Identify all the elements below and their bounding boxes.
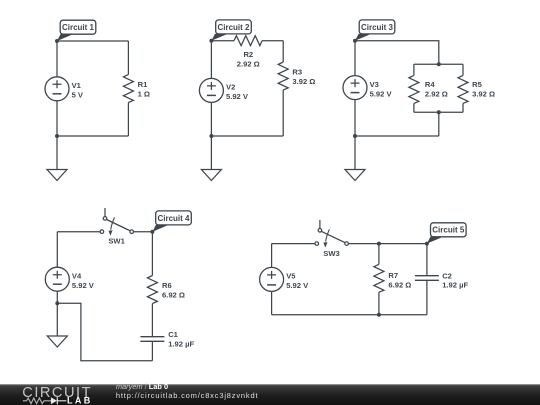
node circuit1 top: [55, 39, 59, 43]
wire circuit2 right upper: [282, 41, 284, 62]
svg-text:R7: R7: [388, 271, 398, 280]
junction R7 top: [377, 242, 381, 246]
junction circuit4 left: [55, 301, 59, 305]
svg-text:V2: V2: [226, 83, 235, 92]
wire circuit4 bottom: [57, 303, 152, 360]
label pointer Circuit 5: [427, 237, 444, 244]
wire circuit2 top left: [211, 40, 234, 42]
svg-text:V5: V5: [286, 272, 296, 281]
wire circuit1 bottom: [57, 135, 128, 137]
logo squiggle wire: [23, 398, 51, 404]
ground circuit3: [345, 136, 365, 181]
svg-text:Circuit 2: Circuit 2: [217, 23, 250, 32]
svg-text:R5: R5: [472, 80, 482, 89]
wire circuit3 left upper: [354, 41, 356, 76]
svg-text:3.92 Ω: 3.92 Ω: [472, 89, 495, 98]
junction circuit3 bus bottom: [437, 110, 441, 114]
svg-text:1.92 µF: 1.92 µF: [442, 281, 468, 290]
label pointer Circuit 2: [211, 34, 228, 41]
label box Circuit 1: [60, 20, 96, 34]
wire switch to circuit5 node: [348, 243, 427, 245]
wire circuit3 bottom: [355, 135, 439, 137]
wire circuit5 bottom: [272, 314, 427, 316]
svg-text:1 Ω: 1 Ω: [138, 89, 150, 98]
wire circuit1 left lower: [56, 101, 58, 136]
logo diode bar and wire: [57, 397, 66, 404]
svg-text:Circuit 4: Circuit 4: [157, 214, 190, 223]
svg-text:LAB: LAB: [67, 395, 93, 405]
wire switch to node circuit4: [134, 231, 153, 233]
wire R7 lower: [378, 292, 380, 314]
node circuit5: [425, 242, 429, 246]
wire circuit4 left top: [56, 232, 58, 268]
svg-text:V3: V3: [370, 80, 379, 89]
label box Circuit 3: [359, 20, 395, 34]
wire circuit2 top right: [262, 40, 283, 42]
svg-text:2.92 Ω: 2.92 Ω: [237, 59, 260, 68]
svg-text:5.92 V: 5.92 V: [370, 89, 393, 98]
voltage source V1: [45, 77, 69, 101]
svg-text:SW3: SW3: [323, 249, 339, 258]
wire circuit4 left bottom: [56, 291, 58, 303]
svg-text:V1: V1: [72, 81, 82, 90]
wire circuit1 right lower: [127, 103, 129, 137]
label box Circuit 5: [431, 223, 467, 237]
svg-text:C1: C1: [168, 330, 178, 339]
svg-text:C2: C2: [442, 271, 452, 280]
svg-text:V4: V4: [72, 271, 82, 280]
label pointer Circuit 4: [152, 225, 169, 232]
svg-text:5.92 V: 5.92 V: [72, 281, 95, 290]
resistor R6: [147, 276, 157, 304]
switch SW1: [100, 208, 133, 236]
node circuit3 top: [353, 39, 357, 43]
label pointer Circuit 1: [57, 34, 74, 41]
footer bar: [0, 384, 540, 405]
junction circuit1 bottom: [55, 134, 59, 138]
svg-text:R1: R1: [138, 80, 148, 89]
wire circuit3 top: [355, 41, 439, 65]
wire C1 down: [151, 341, 153, 360]
svg-text:6.92 Ω: 6.92 Ω: [162, 291, 185, 300]
wire circuit1 right upper: [127, 41, 129, 75]
svg-text:5 V: 5 V: [72, 91, 84, 100]
capacitor C1: [140, 337, 164, 342]
wire circuit3 left lower: [354, 100, 356, 136]
voltage source V3: [343, 76, 367, 100]
resistor R7: [374, 264, 384, 292]
ground circuit4: [47, 303, 67, 347]
wire circuit2 left lower: [210, 102, 212, 136]
wire circuit5 top to switch: [272, 243, 315, 245]
ground circuit1: [47, 136, 67, 181]
svg-text:Circuit 1: Circuit 1: [62, 23, 95, 32]
wire circuit3 bus bottom: [414, 111, 463, 113]
wire circuit5 left bottom: [271, 291, 273, 314]
wire R7 upper: [378, 244, 380, 265]
wire circuit3 bus top: [414, 63, 463, 65]
node circuit2 top: [209, 39, 213, 43]
wire circuit5 left top: [271, 244, 273, 268]
wire circuit3 feed down: [438, 112, 440, 136]
label pointer Circuit 3: [355, 34, 372, 41]
wire circuit2 right lower: [282, 90, 284, 136]
wire circuit2 bottom: [211, 135, 283, 137]
svg-text:3.92 Ω: 3.92 Ω: [292, 77, 315, 86]
svg-text:Circuit 5: Circuit 5: [432, 226, 465, 235]
resistor R3: [278, 62, 288, 90]
capacitor C2: [415, 276, 439, 281]
svg-text:http://circuitlab.com/c8xc3j8z: http://circuitlab.com/c8xc3j8zvnkdt: [116, 391, 259, 400]
voltage source V2: [199, 78, 223, 102]
resistor R1: [123, 75, 133, 103]
wire C2 lower: [426, 280, 428, 314]
svg-text:R4: R4: [425, 80, 435, 89]
node circuit4: [150, 230, 154, 234]
junction R7 bottom: [377, 313, 381, 317]
label box Circuit 4: [156, 211, 192, 225]
junction circuit3 bottom: [353, 134, 357, 138]
svg-text:6.92 Ω: 6.92 Ω: [388, 281, 411, 290]
resistor R4: [409, 75, 419, 103]
label box Circuit 2: [216, 20, 252, 34]
wire R5 upper stub: [462, 64, 464, 75]
svg-text:5.92 V: 5.92 V: [286, 281, 309, 290]
voltage source V5: [260, 267, 284, 291]
ground circuit2: [201, 136, 221, 181]
resistor R5: [458, 75, 468, 103]
wire R4 lower stub: [413, 103, 415, 112]
svg-text:R6: R6: [162, 281, 172, 290]
junction circuit3 bus top: [437, 62, 441, 66]
svg-text:maryem / Lab 0: maryem / Lab 0: [116, 382, 168, 391]
svg-text:1.92 µF: 1.92 µF: [168, 339, 194, 348]
svg-text:Circuit 3: Circuit 3: [361, 23, 394, 32]
resistor R2: [234, 36, 262, 46]
wire circuit2 left upper: [210, 41, 212, 79]
svg-text:R3: R3: [292, 68, 302, 77]
logo diode: [51, 397, 57, 404]
wire circuit4 top to switch: [57, 231, 100, 233]
svg-text:SW1: SW1: [108, 237, 125, 246]
svg-text:2.92 Ω: 2.92 Ω: [425, 89, 448, 98]
wire R5 lower stub: [462, 103, 464, 112]
svg-text:R2: R2: [243, 50, 253, 59]
wire circuit4 node to R6: [151, 232, 153, 276]
voltage source V4: [45, 267, 69, 291]
wire R6 to C1: [151, 304, 153, 337]
wire R4 upper stub: [413, 64, 415, 75]
junction circuit2 bottom: [209, 134, 213, 138]
switch SW3: [315, 220, 348, 248]
wire C2 upper: [426, 244, 428, 276]
wire circuit1 top: [57, 40, 128, 42]
wire circuit1 left upper: [56, 41, 58, 77]
svg-text:5.92 V: 5.92 V: [226, 92, 249, 101]
